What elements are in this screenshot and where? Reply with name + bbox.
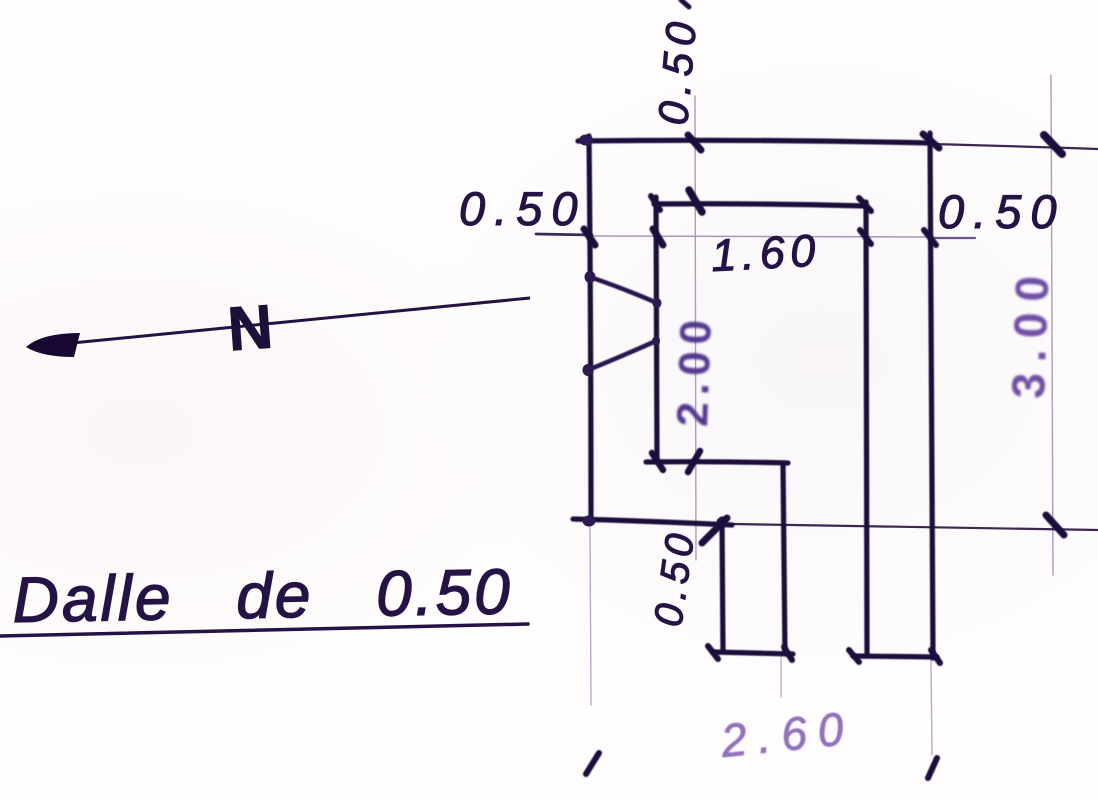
svg-text:Dalle de 0.50: Dalle de 0.50 — [12, 555, 513, 636]
svg-text:N: N — [226, 292, 275, 364]
svg-text:1.60: 1.60 — [710, 224, 822, 281]
svg-text:0.50: 0.50 — [649, 13, 705, 126]
svg-text:2.00: 2.00 — [668, 312, 721, 427]
svg-text:0.50: 0.50 — [459, 182, 586, 235]
svg-text:3.00: 3.00 — [1002, 264, 1059, 399]
svg-text:0.50: 0.50 — [938, 185, 1065, 238]
